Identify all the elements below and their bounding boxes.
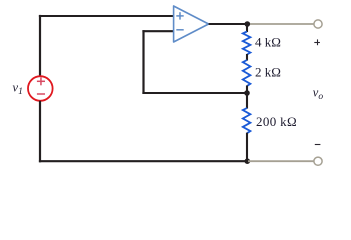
upper output terminal open circle	[314, 20, 322, 28]
wire feedback node to 200k	[246, 93, 248, 109]
wire feedback bottom horizontal to node	[142, 92, 247, 94]
svg-text:4 kΩ: 4 kΩ	[255, 35, 281, 50]
source polarity plus	[37, 77, 45, 85]
gray lead to upper output terminal	[248, 23, 314, 25]
wire between 4k and 2k	[246, 54, 248, 61]
wire feedback vertical	[142, 30, 144, 94]
wire bottom rail	[39, 160, 248, 162]
junction dot feedback node	[244, 90, 250, 96]
resistor R1 4 kOhm zigzag	[243, 32, 251, 55]
svg-text:vo: vo	[313, 85, 324, 102]
wire top rail from source v1 to op-amp noninverting input	[39, 15, 174, 17]
op-amp U1 triangle	[174, 6, 209, 42]
svg-text:v1: v1	[13, 81, 23, 98]
svg-text:2 kΩ: 2 kΩ	[255, 64, 281, 79]
label output polarity minus	[315, 144, 321, 146]
wire between 2k and feedback node	[246, 86, 248, 95]
svg-text:200 kΩ: 200 kΩ	[256, 114, 297, 129]
wire 200k to bottom node	[246, 133, 248, 162]
op-amp noninverting input marker plus	[176, 12, 183, 19]
voltage source v1 circle	[28, 76, 53, 101]
source polarity minus	[37, 93, 45, 95]
lower output terminal open circle	[314, 157, 322, 165]
junction dot bottom node	[245, 158, 251, 164]
label output polarity plus	[314, 39, 320, 45]
wire left rail upper segment	[39, 15, 41, 77]
wire left rail lower segment	[39, 101, 41, 163]
op-amp inverting input marker minus	[176, 29, 183, 31]
wire inverting input horizontal	[142, 30, 173, 32]
resistor R3 200 kOhm zigzag	[243, 108, 251, 133]
junction dot output node	[245, 21, 251, 27]
wire op-amp output	[209, 23, 248, 25]
wire node to resistor 4k	[246, 24, 248, 32]
resistor R2 2 kOhm zigzag	[243, 60, 251, 86]
gray lead to lower output terminal	[248, 160, 314, 162]
